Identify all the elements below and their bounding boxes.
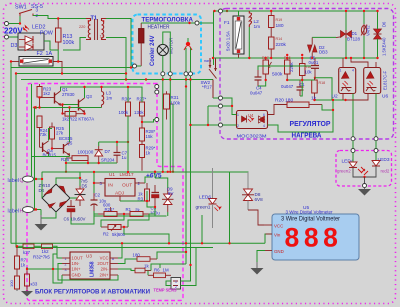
svg-text:1m: 1m	[254, 24, 261, 30]
svg-text:BT128: BT128	[347, 37, 360, 42]
svg-text:2T830: 2T830	[62, 92, 75, 97]
wires LED cathode join	[353, 166, 376, 177]
svg-text:27k: 27k	[56, 131, 64, 136]
svg-text:R19: R19	[276, 18, 283, 22]
svg-text:SR204: SR204	[101, 158, 115, 163]
svg-text:R15: R15	[284, 56, 291, 60]
svg-text:1k2: 1k2	[42, 249, 50, 254]
wire R31 wiper to +6V5 bus	[172, 104, 174, 172]
wire R30/R27 top tie	[128, 87, 142, 102]
svg-text:VCC: VCC	[100, 256, 109, 261]
svg-text:EL817C-F: EL817C-F	[383, 70, 388, 90]
svg-text:POW: POW	[40, 31, 54, 37]
wire Q3 collector	[84, 87, 86, 98]
svg-text:green2: green2	[337, 169, 351, 174]
svg-text:1M: 1M	[163, 268, 169, 273]
wires inside regulator	[287, 79, 314, 81]
LED3 red2	[372, 153, 390, 174]
block border: heater regulator block	[220, 9, 394, 140]
optocoupler U4 MOC3023M	[237, 111, 268, 139]
svg-text:1u: 1u	[122, 155, 127, 160]
wire secondary to heater feed	[106, 19, 133, 68]
pot R2 5k|600	[101, 225, 128, 238]
svg-text:1k: 1k	[146, 151, 151, 156]
capacitor C3 electrolytic	[150, 185, 160, 216]
wire AC rail top	[223, 10, 378, 12]
optocoupler U6	[364, 68, 389, 100]
svg-text:R3: R3	[138, 197, 144, 202]
svg-text:R20 180: R20 180	[275, 98, 293, 104]
motor-fan symbol	[157, 38, 173, 56]
resistor Rk27	[23, 244, 34, 255]
svg-text:ТЕРМОГОЛОВКА: ТЕРМОГОЛОВКА	[142, 17, 194, 24]
svg-text:LED6: LED6	[199, 195, 211, 201]
temp sensor connector	[154, 278, 181, 293]
resistor R29*	[140, 141, 156, 171]
wire heater top	[141, 22, 195, 24]
svg-text:TEMP SENS: TEMP SENS	[154, 288, 177, 293]
svg-text:РЕГУЛЯТОР: РЕГУЛЯТОР	[290, 119, 331, 128]
resistor R3	[138, 183, 150, 202]
terminals on regulator block left border	[219, 96, 223, 100]
suppressor D9	[162, 187, 174, 213]
svg-text:5x20 1.5A: 5x20 1.5A	[226, 31, 231, 51]
svg-text:R31: R31	[171, 95, 180, 100]
svg-text:1: 1	[175, 280, 177, 284]
node	[344, 99, 346, 101]
wire to regulator inputs	[207, 106, 209, 125]
wire cooler top	[163, 32, 171, 72]
resistor R22	[62, 112, 94, 122]
optocoupler U2	[332, 68, 356, 100]
capacitor C5	[309, 56, 320, 80]
terminals on automation block border	[155, 85, 159, 89]
wires from regulator to LED box	[352, 141, 354, 149]
svg-text:ADJ: ADJ	[115, 191, 125, 197]
capacitor C6 electrolytic	[64, 200, 86, 222]
resistor R20 180	[275, 98, 333, 119]
wires U4	[223, 98, 237, 115]
svg-text:8V: 8V	[168, 191, 173, 196]
svg-text:R18: R18	[319, 81, 326, 85]
svg-text:T1: T1	[91, 16, 98, 22]
ground	[35, 215, 48, 231]
svg-text:IN: IN	[108, 183, 113, 189]
wire lower rail	[213, 57, 378, 59]
node: AC terminal N	[5, 35, 9, 39]
svg-text:180: 180	[276, 23, 284, 29]
wire left feeder B	[34, 108, 36, 210]
inductor L2	[249, 11, 260, 30]
wire Q5 collector	[69, 108, 71, 143]
wire Q4 emitter to rail	[48, 154, 50, 157]
terminal on right border	[195, 21, 199, 25]
svg-text:БЛОК РЕГУЛЯТОРОВ И АВТОМАТИКИ: БЛОК РЕГУЛЯТОРОВ И АВТОМАТИКИ	[35, 290, 150, 296]
svg-text:SW1: SW1	[15, 5, 27, 11]
opamp U3 LM358	[62, 252, 118, 279]
wire secondary bottom	[106, 38, 126, 80]
terminal on left border	[133, 64, 137, 68]
svg-text:k27: k27	[23, 250, 31, 255]
node	[207, 124, 209, 126]
svg-text:888: 888	[285, 223, 343, 253]
wire C5 node to opto feed	[315, 78, 332, 100]
wires around LM317	[80, 172, 94, 193]
wires pot area	[94, 213, 98, 215]
switch SW1	[19, 10, 33, 17]
resistor bottom pair	[9, 267, 38, 291]
wire AC nest left vertical 1	[10, 68, 12, 244]
resistor 180	[133, 253, 158, 262]
suppressor D6 1.5KE440	[374, 11, 387, 58]
wires mid verticals	[201, 215, 203, 243]
wire top tie	[99, 141, 128, 143]
inductor L3	[100, 86, 112, 108]
transistor Q5 BC815	[51, 136, 73, 155]
terminal	[363, 184, 367, 188]
svg-text:0u047: 0u047	[250, 91, 263, 96]
wires voltmeter	[248, 210, 264, 225]
svg-text:2: 2	[237, 124, 239, 128]
svg-text:1: 1	[237, 113, 239, 117]
svg-text:3: 3	[36, 8, 39, 13]
svg-text:0u01: 0u01	[309, 60, 319, 65]
wire from regulator out to U2 LED top	[332, 100, 334, 110]
svg-text:1OUT: 1OUT	[72, 256, 84, 261]
node: AC terminal L	[5, 22, 9, 26]
ground	[251, 262, 264, 275]
svg-text:DB3: DB3	[319, 50, 328, 55]
svg-text:D7: D7	[105, 149, 111, 154]
wire	[9, 36, 19, 38]
wire Q3 base	[63, 104, 79, 106]
wire transformer bottom loop	[63, 38, 86, 51]
svg-text:1k: 1k	[144, 264, 149, 269]
capacitor C4	[250, 70, 263, 96]
wire bridge connections	[41, 172, 43, 198]
wire Q1 collector to rail	[61, 87, 129, 91]
svg-text:1k2R22 KT867A: 1k2R22 KT867A	[62, 117, 94, 122]
pot R17 500k	[262, 56, 283, 80]
svg-text:к33: к33	[31, 282, 38, 287]
resistor R14	[269, 37, 287, 58]
wire base rail	[35, 107, 102, 109]
svg-text:4: 4	[263, 124, 265, 128]
diac D2 DB3	[308, 37, 329, 59]
svg-text:MOC3023M: MOC3023M	[237, 134, 267, 139]
svg-text:R32*7k5: R32*7k5	[33, 255, 50, 260]
transistor Q1 2T830	[38, 87, 75, 105]
transistor Q3 KT867A	[79, 94, 93, 112]
svg-text:*R17: *R17	[202, 85, 212, 90]
svg-text:Q3: Q3	[86, 94, 92, 99]
resistor R7	[15, 248, 27, 277]
svg-text:2IN-: 2IN-	[101, 267, 110, 272]
node	[270, 57, 272, 59]
LED4 green2	[337, 153, 357, 174]
wire	[9, 16, 21, 24]
svg-text:OUT: OUT	[122, 183, 132, 189]
svg-text:D6: D6	[382, 21, 387, 27]
svg-text:1.5KE440: 1.5KE440	[382, 37, 387, 56]
svg-text:2IN+: 2IN+	[100, 273, 110, 278]
wires temp sensor	[166, 281, 171, 286]
wire AC nest: heater return rail	[11, 62, 133, 68]
svg-text:1IN+: 1IN+	[72, 267, 82, 272]
node	[61, 112, 63, 114]
svg-text:1m: 1m	[106, 96, 112, 101]
diode D3	[11, 40, 34, 51]
block border: LED indicator box	[336, 151, 392, 187]
fuse F2 1A	[19, 51, 53, 66]
svg-text:GND: GND	[72, 273, 81, 278]
svg-text:1k: 1k	[21, 263, 26, 268]
capacitor C2	[91, 193, 107, 212]
svg-text:red2: red2	[381, 169, 390, 174]
wire	[11, 61, 19, 63]
wire heater bottom to left terminal	[137, 65, 142, 67]
svg-text:100|100: 100|100	[78, 150, 94, 155]
svg-text:100k: 100k	[63, 40, 75, 46]
bridge rectifier D4 ZW10	[39, 183, 71, 212]
sensor red bead	[184, 42, 192, 50]
svg-text:130k: 130k	[134, 110, 144, 115]
svg-text:100k: 100k	[119, 110, 129, 115]
svg-text:LM317: LM317	[120, 172, 134, 177]
ground	[17, 289, 33, 297]
wire to heater-regulator feed	[199, 11, 219, 23]
resistor R15b 1k	[311, 78, 325, 102]
resistor R16	[300, 57, 313, 80]
wire	[238, 11, 240, 16]
resistor R6 1M	[148, 268, 171, 278]
zener pair D5	[75, 179, 89, 207]
svg-text:15k: 15k	[146, 134, 154, 139]
wire fuse bottom	[238, 54, 240, 58]
svg-text:U3: U3	[86, 254, 92, 259]
wires +6V5 rail down	[147, 201, 155, 207]
svg-text:73k: 73k	[40, 132, 48, 137]
svg-text:6V8: 6V8	[255, 197, 264, 202]
wire AC nest mid rail	[16, 73, 126, 75]
svg-text:Cooler 24V: Cooler 24V	[149, 35, 156, 66]
block border: thermal head box	[133, 15, 202, 74]
svg-text:R2: R2	[103, 232, 109, 237]
svg-text:D1: D1	[352, 31, 358, 36]
wires opto bottoms	[342, 94, 344, 101]
net label labelH	[8, 207, 42, 215]
svg-text:6: 6	[263, 113, 265, 117]
wire positive rail to regulator	[80, 172, 233, 178]
node	[345, 10, 347, 12]
svg-text:1: 1	[340, 69, 342, 73]
terminals on LED box top	[351, 149, 355, 153]
svg-text:VAR2: VAR2	[366, 25, 371, 36]
wire Q1 emitter down	[61, 105, 63, 114]
ground	[358, 188, 371, 196]
svg-text:label: label	[8, 209, 19, 215]
varistor VAR2	[361, 11, 371, 58]
svg-text:label: label	[8, 178, 19, 184]
bus wires	[11, 242, 265, 244]
wire R28/R29 node to border terminal	[142, 120, 155, 123]
wire	[33, 16, 86, 19]
wire feed under thermal head to SW2	[21, 79, 213, 81]
svg-text:R26: R26	[61, 157, 70, 162]
wire R30 bottom to bus	[127, 116, 129, 171]
svg-text:4: 4	[352, 69, 354, 73]
svg-text:MOTOR: MOTOR	[169, 38, 174, 54]
svg-text:C6 10u50V: C6 10u50V	[64, 217, 86, 222]
svg-text:U1: U1	[109, 172, 115, 177]
resistor R19	[269, 11, 284, 37]
resistor R27*	[134, 97, 147, 117]
terminals on regulator bottom border	[351, 137, 355, 141]
svg-text:100: 100	[9, 280, 14, 287]
resistor R28*	[140, 116, 156, 141]
svg-text:10k: 10k	[305, 70, 313, 75]
svg-text:green1: green1	[196, 205, 211, 211]
resistor R15	[284, 56, 294, 80]
svg-text:Vin: Vin	[274, 233, 281, 238]
svg-text:2OUT: 2OUT	[97, 261, 109, 266]
svg-text:U4: U4	[248, 113, 254, 118]
triac D1 BT128	[336, 11, 360, 58]
resistor R30*	[119, 97, 132, 117]
svg-text:F1: F1	[224, 20, 230, 26]
svg-text:R14: R14	[276, 37, 283, 41]
wires sensor network	[157, 252, 186, 259]
diode D7 SR204	[95, 146, 115, 163]
svg-text:U6: U6	[382, 94, 388, 100]
transformer T1	[79, 16, 106, 41]
svg-text:C2: C2	[95, 193, 101, 198]
transistor Q4 BC815	[40, 141, 57, 158]
svg-text:1IN-: 1IN-	[72, 261, 81, 266]
svg-text:D5: D5	[82, 184, 88, 189]
pot R31	[164, 91, 181, 119]
svg-text:R6: R6	[154, 268, 160, 273]
fuse F1	[224, 16, 244, 54]
wire SW2 to terminal	[213, 97, 219, 99]
wire Q5 emitter	[69, 156, 71, 157]
resistor R1k2	[33, 244, 53, 260]
svg-text:220k: 220k	[289, 62, 294, 72]
wire diac to triac gate	[312, 36, 336, 38]
LED glow arrows	[358, 167, 368, 175]
wires opto tops	[342, 58, 344, 68]
svg-text:12: 12	[100, 35, 104, 39]
digital voltmeter U5	[264, 205, 359, 260]
wire cooler bottom	[162, 56, 164, 72]
svg-text:LM358: LM358	[90, 261, 96, 277]
svg-text:100k: 100k	[171, 101, 181, 106]
resistor 1k	[135, 264, 151, 273]
wire	[53, 62, 62, 74]
wires U3	[34, 245, 42, 247]
svg-text:HEATHER: HEATHER	[148, 25, 170, 31]
node Q3 emitter	[83, 113, 85, 115]
svg-text:R30*: R30*	[122, 97, 132, 102]
zener D8 6V8	[233, 172, 263, 210]
LED2 POW indicator	[18, 25, 54, 51]
switch SW2	[201, 58, 218, 98]
resistor R13	[56, 19, 75, 51]
capacitor C7	[114, 146, 128, 163]
resistor R23	[37, 84, 52, 108]
resistor R26	[61, 150, 94, 164]
svg-text:0u047: 0u047	[281, 84, 294, 89]
svg-text:500k: 500k	[272, 72, 283, 78]
block border: regulator-automation block	[27, 84, 183, 301]
wire bottom tie	[66, 162, 117, 164]
heater element	[139, 23, 170, 66]
resistor R25	[50, 123, 65, 149]
svg-text:220: 220	[79, 25, 85, 29]
svg-text:220k: 220k	[276, 42, 287, 48]
svg-text:VCC: VCC	[274, 224, 283, 229]
resistor R1 2k	[124, 207, 149, 217]
wire left feeder A	[31, 84, 33, 176]
pot R21* 600	[98, 203, 124, 217]
svg-text:R17: R17	[262, 56, 269, 60]
svg-text:1k2: 1k2	[43, 91, 51, 96]
wire sensor drops	[185, 76, 187, 264]
wire Q4 collector	[49, 129, 53, 141]
svg-text:220V: 220V	[4, 27, 23, 36]
svg-text:GND: GND	[274, 249, 284, 254]
node	[188, 22, 190, 24]
wire	[44, 41, 58, 62]
regulator U1 LM317	[94, 172, 145, 201]
wire down to SW2	[213, 23, 215, 65]
wire sensor leads	[185, 48, 187, 72]
wire emitter rail	[32, 156, 70, 158]
resistor R24	[37, 116, 48, 147]
wire AC nest left vertical 2	[15, 74, 17, 248]
terminals on bottom border of thermal head	[161, 72, 165, 76]
svg-text:D3: D3	[11, 43, 18, 49]
wire	[248, 27, 250, 58]
svg-text:U2: U2	[332, 94, 338, 100]
node	[125, 78, 127, 80]
capacitor C1	[281, 80, 305, 96]
wire cooler drops into block	[162, 76, 164, 171]
LED6 green1	[196, 168, 222, 228]
net label labelQ	[8, 176, 43, 184]
